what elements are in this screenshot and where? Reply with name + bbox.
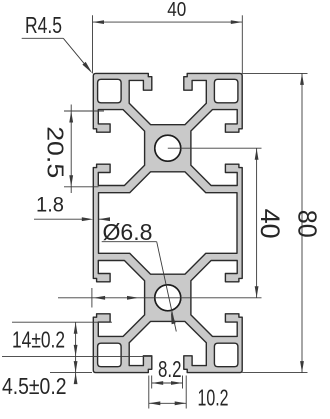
dim 40 top	[92, 15, 94, 73]
svg-text:10.2: 10.2	[198, 385, 229, 411]
ticks/arrows on lower centerline	[91, 288, 93, 308]
svg-text:14±0.2: 14±0.2	[12, 327, 65, 353]
center hole bottom	[155, 285, 181, 311]
dim 20.5 left	[64, 110, 104, 112]
aluminium extrusion profile cross-section	[93, 73, 242, 372]
dim 14+-0.2	[12, 321, 112, 323]
dim 40 right (between hole centers)	[168, 147, 262, 149]
svg-text:8.2: 8.2	[158, 356, 182, 382]
svg-text:R4.5: R4.5	[25, 12, 62, 38]
svg-text:40: 40	[255, 209, 285, 239]
dim 8.2 bottom	[151, 376, 153, 389]
svg-text:Ø6.8: Ø6.8	[103, 219, 153, 245]
center hole top	[155, 135, 181, 161]
dim 80 right	[242, 72, 307, 74]
svg-text:1.8: 1.8	[36, 194, 64, 217]
dim 10.2 bottom	[148, 376, 150, 409]
svg-text:4.5±0.2: 4.5±0.2	[2, 373, 67, 399]
svg-text:40: 40	[167, 0, 186, 21]
svg-text:20.5: 20.5	[43, 126, 69, 178]
svg-text:80: 80	[292, 210, 322, 238]
dim 1.8 left	[34, 218, 86, 220]
